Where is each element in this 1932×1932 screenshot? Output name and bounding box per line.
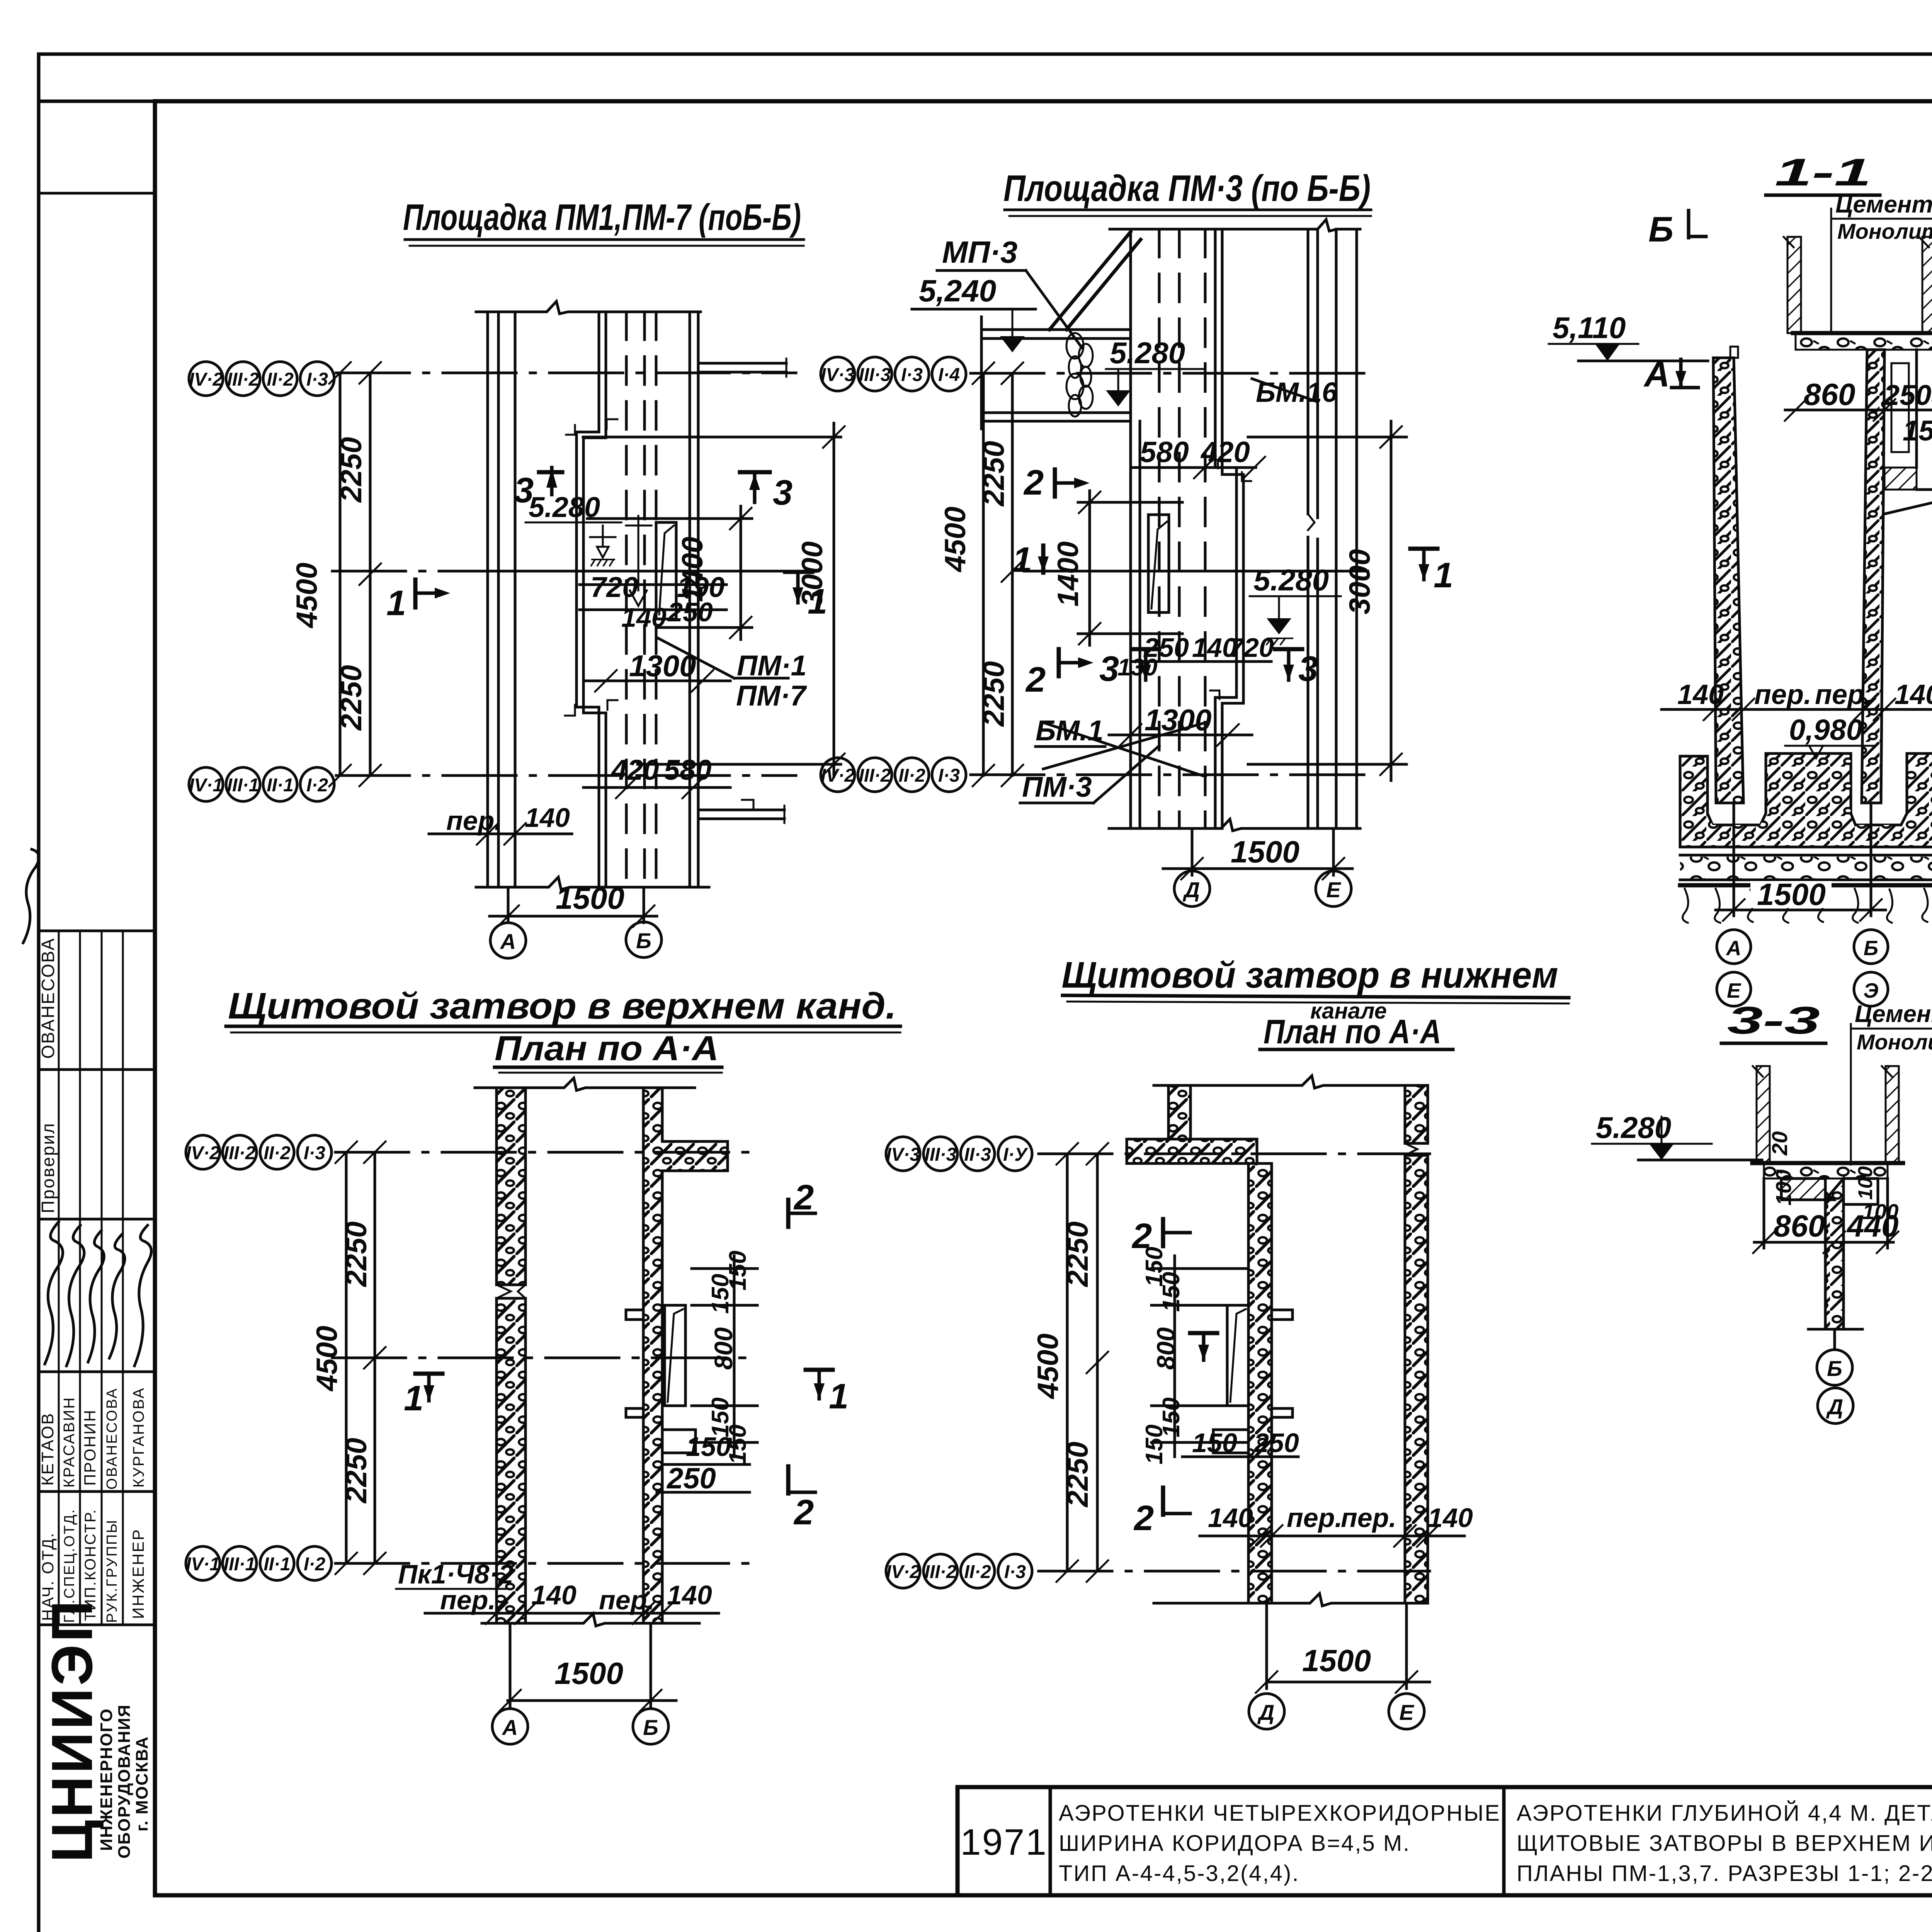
view1 left dim lines 2250/4500/2250 xyxy=(291,362,381,786)
view2 axis2 line xyxy=(971,774,1368,776)
view1 gate rectangle xyxy=(656,522,676,619)
view2 axis2 circles xyxy=(821,758,966,792)
svg-text:IV·1: IV·1 xyxy=(189,775,223,796)
svg-text:пер.: пер. xyxy=(1815,679,1872,710)
view1 section mark T3 right xyxy=(740,472,793,512)
view1 axis 1 line xyxy=(336,372,796,374)
title block project name cell xyxy=(1059,1801,1508,1886)
view4 left wall upper segment xyxy=(1168,1085,1190,1139)
view3 axis1 circles xyxy=(186,1135,332,1169)
sec33 dims 860 440 xyxy=(1753,1179,1898,1253)
svg-text:860: 860 xyxy=(1804,377,1855,412)
view3 label Pk1-48-2 xyxy=(396,1559,514,1589)
svg-text:150: 150 xyxy=(1903,415,1932,447)
sec11 middle wall hatched xyxy=(1862,350,1884,803)
svg-text:ИНЖЕНЕР: ИНЖЕНЕР xyxy=(129,1528,147,1619)
view2 section mark 1 left xyxy=(1012,540,1049,580)
view2 center axis xyxy=(1024,570,1368,573)
svg-text:План по А·А: План по А·А xyxy=(1264,1012,1441,1051)
view2 dim 1500 bottom xyxy=(1163,828,1352,879)
view3 title line2 xyxy=(495,1029,722,1073)
view2 gate rectangle xyxy=(1148,515,1169,612)
svg-text:ПМ·3: ПМ·3 xyxy=(1022,771,1092,803)
view2 section mark 2 top xyxy=(1023,463,1090,502)
sec11 level 0.980 xyxy=(1785,714,1874,758)
svg-text:I·3: I·3 xyxy=(938,765,960,786)
view2 label BM-1 xyxy=(1036,714,1206,777)
svg-text:А: А xyxy=(502,1715,518,1740)
view4 left flange band xyxy=(1127,1139,1257,1163)
svg-text:ЦНИИЭП: ЦНИИЭП xyxy=(39,1598,104,1862)
svg-text:II·2: II·2 xyxy=(264,1143,291,1163)
sec33 small dims xyxy=(1767,1131,1898,1224)
view3 gate recess in right wall xyxy=(626,1305,696,1453)
svg-text:IV·2: IV·2 xyxy=(189,369,223,390)
svg-text:130: 130 xyxy=(1117,654,1157,681)
sec11 U-channel right post xyxy=(1919,237,1932,333)
svg-text:2: 2 xyxy=(793,1178,814,1217)
sec33 level 5.280 xyxy=(1592,1111,1762,1160)
svg-text:Щитовой затвор в нижнем: Щитовой затвор в нижнем xyxy=(1062,954,1558,996)
svg-text:ШИРИНА КОРИДОРА В=4,5 М.: ШИРИНА КОРИДОРА В=4,5 М. xyxy=(1059,1831,1410,1856)
sec11 mark A left xyxy=(1643,355,1698,394)
svg-text:IV·3: IV·3 xyxy=(886,1145,920,1165)
view2 left platform MP-3 xyxy=(981,232,1141,429)
sec33 title xyxy=(1721,999,1826,1043)
svg-text:20: 20 xyxy=(1767,1131,1792,1156)
view4 axis2 circles xyxy=(886,1554,1032,1588)
svg-text:I·2: I·2 xyxy=(306,775,328,796)
view2 dashed hidden lines xyxy=(1159,229,1205,828)
sec11 gravel layers xyxy=(1680,855,1932,885)
view3 left wall hatched xyxy=(497,1088,526,1623)
svg-text:III·1: III·1 xyxy=(227,775,259,796)
svg-text:0,980: 0,980 xyxy=(1789,714,1862,747)
svg-text:3: 3 xyxy=(1099,649,1119,689)
svg-text:150: 150 xyxy=(1141,1425,1168,1464)
view3 dims 2250 4500 2250 xyxy=(311,1141,386,1574)
svg-text:IV·3: IV·3 xyxy=(821,365,855,385)
view1 right wall xyxy=(690,312,698,887)
svg-text:3: 3 xyxy=(773,473,793,512)
svg-text:140: 140 xyxy=(667,1580,712,1610)
svg-text:140: 140 xyxy=(525,803,570,833)
svg-text:1: 1 xyxy=(386,583,406,623)
svg-text:Д: Д xyxy=(1826,1395,1843,1419)
view1 right lower flange xyxy=(698,800,784,823)
svg-text:пер.: пер. xyxy=(446,806,502,836)
svg-text:БМ.16: БМ.16 xyxy=(1256,377,1338,408)
view3 per 140 per 140 xyxy=(425,1580,719,1624)
sec33 slab xyxy=(1752,1163,1903,1179)
view3 top cut line xyxy=(475,1078,695,1090)
svg-text:150: 150 xyxy=(707,1274,734,1314)
view3 circles A B xyxy=(492,1709,668,1744)
svg-text:Монолит.ж.б.плита-100: Монолит.ж.б.плита-100 xyxy=(1837,219,1932,243)
svg-text:2: 2 xyxy=(1133,1498,1154,1538)
svg-text:пер.: пер. xyxy=(1754,679,1811,710)
view1 section mark 1 left xyxy=(386,580,450,623)
sec11 floor labels xyxy=(1831,191,1932,333)
svg-text:2250: 2250 xyxy=(340,1221,373,1287)
sec33 floor labels xyxy=(1851,1001,1932,1165)
svg-text:3000: 3000 xyxy=(796,541,829,607)
svg-text:5.280: 5.280 xyxy=(1253,563,1329,597)
svg-text:2: 2 xyxy=(1025,660,1046,699)
svg-text:2250: 2250 xyxy=(978,441,1010,507)
svg-text:I·4: I·4 xyxy=(938,365,960,385)
svg-text:140: 140 xyxy=(621,602,667,633)
svg-text:III·2: III·2 xyxy=(227,369,259,390)
svg-text:250: 250 xyxy=(1883,379,1931,411)
svg-text:150: 150 xyxy=(1192,1428,1237,1458)
svg-text:РУК.ГРУППЫ: РУК.ГРУППЫ xyxy=(104,1519,120,1623)
view4 gate in left wall xyxy=(1213,1305,1293,1453)
svg-text:II·2: II·2 xyxy=(267,369,294,390)
svg-text:1500: 1500 xyxy=(1302,1643,1371,1678)
view1 center axis line xyxy=(332,570,796,573)
svg-text:I·3: I·3 xyxy=(1004,1562,1026,1582)
view4 left wall lower segment with gate xyxy=(1248,1163,1272,1603)
view4 axis1 circles xyxy=(886,1137,1032,1171)
svg-text:IV·2: IV·2 xyxy=(886,1562,920,1582)
svg-text:Площадка ПМ·3 (по Б-Б): Площадка ПМ·3 (по Б-Б) xyxy=(1003,168,1371,209)
view2 level 5.280 center xyxy=(1250,563,1341,645)
view4 axis2 line xyxy=(1039,1570,1430,1573)
svg-text:2250: 2250 xyxy=(978,661,1010,727)
svg-text:100: 100 xyxy=(1771,1170,1796,1206)
svg-text:II·2: II·2 xyxy=(898,765,925,786)
sec33 circles B D xyxy=(1817,1350,1853,1423)
svg-text:II·2: II·2 xyxy=(964,1562,991,1582)
svg-text:I·3: I·3 xyxy=(901,365,923,385)
svg-text:720: 720 xyxy=(590,571,638,603)
view2 right wall pair xyxy=(1308,229,1357,828)
svg-text:Б: Б xyxy=(1864,937,1878,960)
view4 bottom cut line xyxy=(1154,1594,1428,1606)
view2 section mark 3 right xyxy=(1275,649,1318,689)
view1 dim 3000 extension lines xyxy=(583,423,845,777)
svg-text:ПЛАНЫ ПМ-1,3,7. РАЗРЕЗЫ 1-1;: ПЛАНЫ ПМ-1,3,7. РАЗРЕЗЫ 1-1; 2-2; 3-3. xyxy=(1517,1861,1932,1886)
svg-text:II·1: II·1 xyxy=(264,1554,290,1575)
view1 left wall lines xyxy=(488,312,515,887)
svg-text:Б: Б xyxy=(1827,1356,1842,1381)
view2 middle stepped wall xyxy=(1209,229,1251,828)
view2 bottom axis circles D E xyxy=(1174,871,1351,906)
view4 section mark 2 top xyxy=(1131,1216,1190,1256)
svg-text:150: 150 xyxy=(686,1432,731,1462)
svg-text:250: 250 xyxy=(666,1462,716,1495)
view1 section mark 1 right xyxy=(785,572,827,621)
svg-text:580: 580 xyxy=(664,754,711,786)
view3 bottom cut line xyxy=(482,1614,699,1626)
svg-text:Цементный пол-20: Цементный пол-20 xyxy=(1855,1001,1932,1027)
svg-text:1500: 1500 xyxy=(1231,835,1299,869)
sec11 U-channel left post xyxy=(1784,237,1801,333)
svg-text:1: 1 xyxy=(1434,556,1453,595)
stamp CNIIEP cell xyxy=(39,1598,151,1862)
view2 top cut line xyxy=(1110,219,1360,231)
svg-text:3000: 3000 xyxy=(1344,549,1376,614)
svg-text:А: А xyxy=(1643,355,1670,394)
sec11 gate slot xyxy=(1884,350,1932,514)
svg-text:Б: Б xyxy=(643,1715,658,1740)
svg-text:4500: 4500 xyxy=(939,507,972,573)
view1 middle stepped wall xyxy=(565,312,617,887)
view2 dim 3000 right xyxy=(1248,421,1406,781)
view3 right wall hatched with top flange xyxy=(643,1088,728,1623)
sec11 left tapered wall hatched xyxy=(1713,347,1743,803)
view2 dims 250 140 720 xyxy=(1117,633,1274,681)
svg-text:ОБОРУДОВАНИЯ: ОБОРУДОВАНИЯ xyxy=(115,1704,134,1859)
view1 dim 1300 xyxy=(583,649,730,692)
svg-text:пер.: пер. xyxy=(1341,1503,1396,1533)
view4 dim 1500 xyxy=(1256,1603,1430,1693)
stamp signatures scribbles xyxy=(23,849,151,1366)
view2 section marks 2 and 3 bottom xyxy=(1025,649,1159,699)
sec11 foundation mass xyxy=(1680,753,1932,847)
svg-text:КЕТАОВ: КЕТАОВ xyxy=(38,1412,57,1486)
view3 axis1 line xyxy=(335,1151,757,1154)
view3 title line1 xyxy=(226,985,900,1032)
view1 right flange top at axis1 xyxy=(698,359,786,377)
view1 bottom cut line xyxy=(476,877,709,889)
svg-text:А: А xyxy=(1726,937,1742,960)
svg-text:1500: 1500 xyxy=(554,1656,623,1690)
svg-text:А: А xyxy=(500,929,516,954)
view1 dim per 140 bottom xyxy=(429,803,572,845)
view1 section mark 3 top xyxy=(514,468,562,510)
view2 axis1 line xyxy=(971,372,1368,375)
view3 center axis xyxy=(332,1357,757,1359)
svg-text:Проверил: Проверил xyxy=(38,1122,58,1213)
svg-text:ОВАНЕСОВА: ОВАНЕСОВА xyxy=(38,937,58,1059)
view1 dim 1500 bottom xyxy=(490,881,657,927)
sec33 U-channel posts xyxy=(1753,1066,1899,1163)
svg-text:250: 250 xyxy=(1253,1428,1299,1458)
svg-text:2250: 2250 xyxy=(340,1438,373,1504)
svg-text:1500: 1500 xyxy=(556,881,624,915)
svg-text:КУРГАНОВА: КУРГАНОВА xyxy=(130,1387,147,1488)
view4 title line2 kanale xyxy=(1260,998,1453,1051)
view2 bottom cut line xyxy=(1109,819,1360,831)
view1 top cut line xyxy=(476,301,701,314)
svg-text:IV·2: IV·2 xyxy=(186,1143,220,1163)
svg-text:1500: 1500 xyxy=(1757,877,1826,912)
svg-text:ТИП А-4-4,5-3,2(4,4).: ТИП А-4-4,5-3,2(4,4). xyxy=(1059,1861,1299,1886)
svg-text:1971: 1971 xyxy=(960,1821,1048,1863)
sec33 stem bottom xyxy=(1808,1329,1862,1349)
view4 per 140 labels xyxy=(1200,1503,1473,1547)
view3 section mark 1 left xyxy=(404,1374,442,1418)
svg-text:2: 2 xyxy=(1023,463,1044,502)
view3 section mark 2 bottom xyxy=(788,1466,815,1532)
svg-text:г. МОСКВА: г. МОСКВА xyxy=(133,1736,151,1832)
view2 label MP-3 xyxy=(937,235,1082,348)
view1 level mark symbol xyxy=(590,526,616,566)
view3 axis2 circles xyxy=(186,1546,332,1580)
svg-text:МП·3: МП·3 xyxy=(942,235,1017,269)
svg-text:Е: Е xyxy=(1326,878,1341,902)
view2 title xyxy=(1003,168,1371,216)
svg-text:III·2: III·2 xyxy=(925,1562,957,1582)
view3 axis2 line xyxy=(335,1562,757,1565)
svg-text:План по А·А: План по А·А xyxy=(495,1029,719,1068)
view2 label PM-3 xyxy=(1020,746,1159,803)
sec11 mark B left xyxy=(1648,210,1706,249)
view1 title xyxy=(403,197,804,246)
svg-text:ПМ·7: ПМ·7 xyxy=(736,680,808,712)
svg-text:2250: 2250 xyxy=(335,437,368,503)
view4 section mark 2 bottom xyxy=(1133,1488,1190,1538)
view1 level 5.280 xyxy=(526,491,621,523)
svg-text:IV·1: IV·1 xyxy=(186,1554,220,1575)
view2 dims 580 420 xyxy=(1131,436,1265,478)
title block sheet name cell xyxy=(1517,1801,1932,1886)
svg-text:2250: 2250 xyxy=(1061,1442,1094,1508)
svg-text:III·2: III·2 xyxy=(859,765,891,786)
svg-text:III·1: III·1 xyxy=(224,1554,256,1575)
svg-text:I·2: I·2 xyxy=(304,1554,325,1575)
sec33 stem wall xyxy=(1825,1179,1844,1329)
svg-text:Б: Б xyxy=(1648,210,1673,249)
svg-text:III·3: III·3 xyxy=(859,365,891,385)
view1 axis1 circles IV-2 III-2 II-2 I-3 xyxy=(189,362,334,396)
view4 gate dims left xyxy=(1141,1247,1299,1464)
svg-text:580: 580 xyxy=(1140,436,1189,469)
view3 section mark 1 right xyxy=(806,1370,849,1416)
view2 dim 1300 xyxy=(1109,703,1252,746)
svg-text:ПМ·1: ПМ·1 xyxy=(737,650,807,682)
view1 bottom axis circles A B xyxy=(490,922,662,958)
sec33 under-slab block xyxy=(1781,1179,1833,1200)
sec11 dims 860 250 40 xyxy=(1785,377,1932,447)
svg-text:2250: 2250 xyxy=(1061,1221,1094,1287)
svg-text:КРАСАВИН: КРАСАВИН xyxy=(61,1396,78,1488)
svg-text:3-3: 3-3 xyxy=(1727,999,1820,1042)
sec11 bottom circles A E B E2 xyxy=(1717,930,1888,1006)
svg-text:I·3: I·3 xyxy=(304,1143,325,1163)
svg-text:5.280: 5.280 xyxy=(1596,1111,1671,1145)
svg-text:140: 140 xyxy=(1895,679,1932,710)
sec11 dim 1500 bottom xyxy=(1716,803,1886,921)
view3 section mark 2 top xyxy=(788,1178,815,1227)
svg-text:I·У: I·У xyxy=(1003,1145,1028,1165)
svg-text:5.280: 5.280 xyxy=(1110,336,1185,370)
sec33 right recess xyxy=(1844,1179,1878,1204)
svg-text:Э: Э xyxy=(1864,979,1879,1002)
svg-text:III·2: III·2 xyxy=(224,1143,256,1163)
svg-text:Д: Д xyxy=(1183,878,1200,902)
title block grid xyxy=(957,1787,1932,1895)
view1 dims 420 580 xyxy=(583,754,730,798)
sec11 slab xyxy=(1793,333,1932,350)
view4 title line1 xyxy=(1062,954,1569,1003)
view1 axis 2 line xyxy=(336,774,796,777)
svg-text:Цементный пол-20: Цементный пол-20 xyxy=(1835,191,1932,218)
svg-text:Щитовой затвор в верхнем канд.: Щитовой затвор в верхнем канд. xyxy=(228,985,896,1027)
svg-text:2250: 2250 xyxy=(335,665,368,731)
svg-text:1: 1 xyxy=(404,1379,423,1418)
svg-text:Д: Д xyxy=(1257,1700,1274,1725)
svg-text:420: 420 xyxy=(611,754,659,786)
svg-text:IV·2: IV·2 xyxy=(821,765,855,786)
svg-text:Е: Е xyxy=(1399,1700,1414,1725)
svg-text:5,110: 5,110 xyxy=(1553,311,1626,345)
svg-text:720: 720 xyxy=(1229,633,1274,663)
view2 left dims 2250 4500 2250 xyxy=(939,362,1023,786)
svg-text:АЭРОТЕНКИ ГЛУБИНОЙ 4,4 М. ДЕ: АЭРОТЕНКИ ГЛУБИНОЙ 4,4 М. ДЕТАЛИ. xyxy=(1517,1801,1932,1826)
view2 main left wall xyxy=(1131,229,1140,828)
sec11 ground squiggles xyxy=(1683,889,1932,923)
svg-text:пер.: пер. xyxy=(440,1585,496,1615)
view2 axis1 circles xyxy=(821,357,966,391)
svg-text:100: 100 xyxy=(1854,1166,1877,1200)
svg-text:III·3: III·3 xyxy=(925,1145,957,1165)
svg-text:1400: 1400 xyxy=(1052,541,1085,607)
svg-text:Монолит.ж.б.плита-100: Монолит.ж.б.плита-100 xyxy=(1857,1030,1932,1054)
view4 axis1 line xyxy=(1039,1153,1430,1155)
svg-text:3: 3 xyxy=(1298,649,1318,689)
svg-text:2: 2 xyxy=(793,1493,814,1532)
view4 top cut line xyxy=(1154,1076,1428,1088)
view2 label BM-16 xyxy=(1252,377,1338,408)
svg-text:140: 140 xyxy=(531,1580,577,1610)
svg-text:ЩИТОВЫЕ ЗАТВОРЫ В ВЕРХНЕМ И НИ: ЩИТОВЫЕ ЗАТВОРЫ В ВЕРХНЕМ И НИЖНЕМ КАНАЛ… xyxy=(1517,1831,1932,1856)
svg-text:I·3: I·3 xyxy=(306,369,328,390)
svg-text:860: 860 xyxy=(1774,1209,1825,1243)
svg-text:Б: Б xyxy=(636,929,651,953)
svg-text:1: 1 xyxy=(1012,540,1032,580)
title block year 1971 xyxy=(960,1821,1048,1863)
view1 dashed hidden lines xyxy=(626,312,656,887)
view4 dims 2250 4500 2250 xyxy=(1032,1143,1108,1582)
svg-text:Площадка ПМ1,ПМ-7 (поБ-Б): Площадка ПМ1,ПМ-7 (поБ-Б) xyxy=(403,197,801,238)
view1 dims 720 190 xyxy=(580,571,726,633)
view1 down arrow in channel xyxy=(626,516,651,606)
view2 level 5.280 top xyxy=(1106,336,1206,406)
svg-text:140: 140 xyxy=(1677,679,1724,710)
svg-text:АЭРОТЕНКИ ЧЕТЫРЕХКОРИДОРНЫЕ.: АЭРОТЕНКИ ЧЕТЫРЕХКОРИДОРНЫЕ. xyxy=(1059,1801,1508,1826)
svg-text:5,240: 5,240 xyxy=(919,274,996,308)
sec11 title xyxy=(1766,151,1880,195)
view2 dim 1400 xyxy=(1052,491,1182,645)
svg-text:ОВАНЕСОВА: ОВАНЕСОВА xyxy=(104,1388,120,1490)
view3 dim 1500 xyxy=(499,1623,676,1711)
view1 label PM-1 PM-7 xyxy=(657,638,808,712)
view4 circles D E xyxy=(1249,1694,1424,1729)
svg-text:ИНЖЕНЕРНОГО: ИНЖЕНЕРНОГО xyxy=(97,1708,116,1851)
svg-text:140: 140 xyxy=(1208,1503,1253,1533)
sec11 dims 140 per per 140 xyxy=(1662,679,1932,720)
view1 dim 1400 xyxy=(587,506,752,639)
svg-text:250: 250 xyxy=(667,597,713,627)
view2 chain hoist symbol xyxy=(1066,333,1093,417)
sec11 level 5.110 xyxy=(1549,311,1708,361)
svg-text:1-1: 1-1 xyxy=(1775,151,1871,194)
view4 right wall xyxy=(1405,1085,1428,1603)
svg-text:ПРОНИН: ПРОНИН xyxy=(81,1409,99,1486)
stamp rotated labels xyxy=(38,937,147,1623)
view4 mark 1 arrow xyxy=(1190,1333,1217,1361)
svg-text:II·1: II·1 xyxy=(267,775,293,796)
view3 gate dims right xyxy=(657,1251,757,1495)
svg-text:II·3: II·3 xyxy=(964,1145,991,1165)
view2 section mark 1 right xyxy=(1410,549,1453,595)
view1 axis2 circles IV-1 III-1 II-1 I-2 xyxy=(189,767,334,801)
svg-text:1: 1 xyxy=(829,1377,849,1416)
svg-text:4500: 4500 xyxy=(291,563,323,629)
